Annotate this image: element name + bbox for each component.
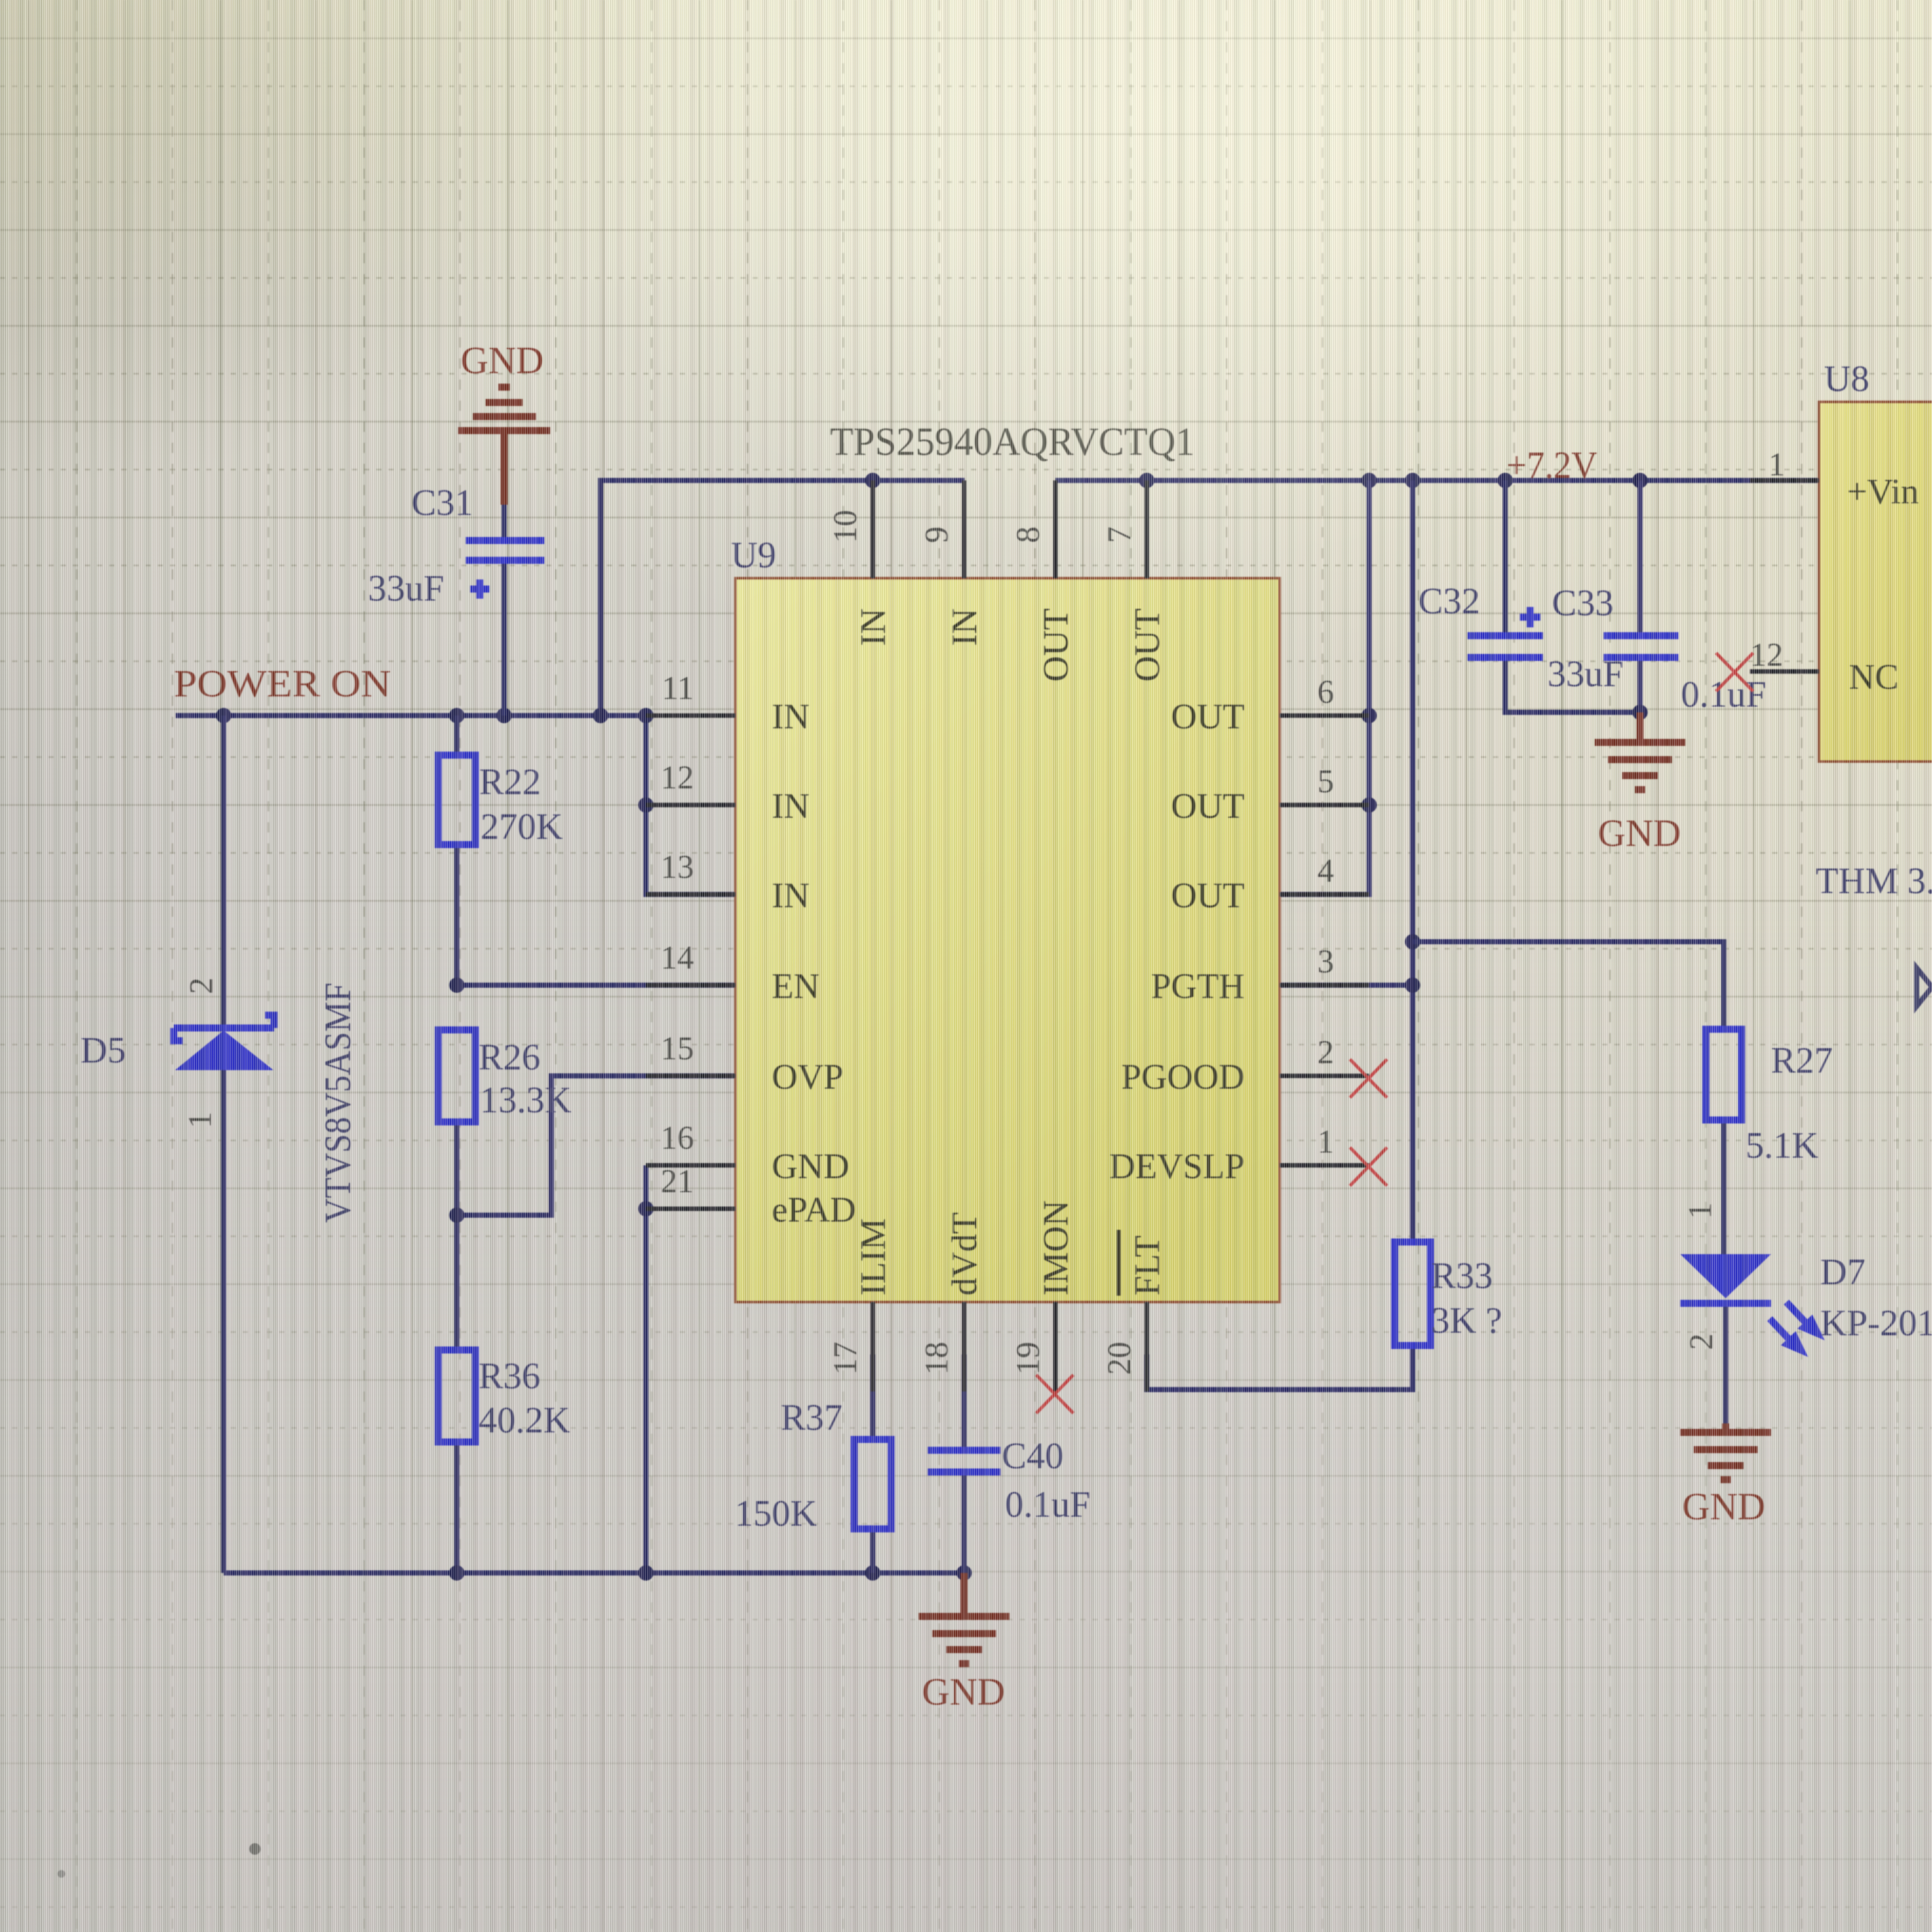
pin name OUT xyxy=(1171,786,1245,826)
IC U9 comment TPS25940AQRVCTQ1 xyxy=(830,420,1195,464)
value 3K ? xyxy=(1431,1299,1502,1341)
svg-text:7: 7 xyxy=(1101,526,1138,543)
value 150K xyxy=(735,1492,817,1534)
junction riser x R27 branch xyxy=(1405,934,1420,949)
svg-text:2: 2 xyxy=(1683,1333,1720,1350)
label R37 xyxy=(781,1397,843,1438)
pin number 9 xyxy=(919,526,955,543)
svg-text:15: 15 xyxy=(661,1031,694,1067)
svg-text:2: 2 xyxy=(183,977,220,994)
label C40 xyxy=(1002,1435,1064,1476)
zener diode D5 xyxy=(174,1015,274,1070)
wire OUT-pins tie line xyxy=(1280,480,1369,894)
pin name PGOOD xyxy=(1121,1057,1245,1097)
resistor R33 xyxy=(1395,1242,1430,1345)
svg-text:20: 20 xyxy=(1101,1342,1138,1375)
D5 pin number 1 xyxy=(182,1112,218,1128)
svg-text:PGTH: PGTH xyxy=(1151,967,1245,1006)
label D5 xyxy=(80,1029,126,1071)
wire D5 bottom to bus xyxy=(221,1070,226,1573)
junction bus x C40/GND xyxy=(956,1565,972,1581)
svg-text:150K: 150K xyxy=(735,1492,817,1534)
capacitor C33 plates xyxy=(1604,636,1678,657)
pin number 13 xyxy=(661,849,694,885)
junction +7.2V x PGTH riser xyxy=(1405,473,1420,488)
value 33uF (C31) xyxy=(368,567,444,609)
svg-text:1: 1 xyxy=(1682,1202,1719,1219)
IC U8 designator xyxy=(1824,358,1869,399)
wire R27 to D7 xyxy=(1721,1120,1726,1254)
junction +7.2V x C33 xyxy=(1632,473,1648,488)
dust speck 2 xyxy=(57,1870,65,1878)
value 13.3K xyxy=(480,1079,572,1121)
C31 polarity + xyxy=(470,579,489,599)
resistor R27 xyxy=(1706,1029,1742,1120)
wire POWER_ON horizontal net xyxy=(176,713,646,718)
D7 light arrows xyxy=(1770,1302,1822,1354)
junction bus x R37 xyxy=(865,1565,880,1581)
pin name PGTH xyxy=(1151,967,1245,1006)
svg-text:U9: U9 xyxy=(731,534,776,576)
wire from POWER_ON up-left rail to IC top rail xyxy=(601,480,965,716)
GND label (D7) xyxy=(1682,1485,1765,1528)
U8 pin name +Vin xyxy=(1847,472,1919,512)
pin number 3 xyxy=(1317,944,1334,980)
pin 12 (IN) stub xyxy=(646,803,735,808)
svg-text:3K ?: 3K ? xyxy=(1431,1299,1502,1341)
wire EN pin xyxy=(457,983,735,988)
pin number 10 xyxy=(827,510,864,543)
svg-text:R36: R36 xyxy=(479,1355,540,1397)
svg-text:VTVS8V5ASMF: VTVS8V5ASMF xyxy=(317,983,358,1223)
pin 20 (FLT) bottom stub xyxy=(1145,1302,1149,1391)
wire R37 to bus xyxy=(870,1529,875,1573)
pin number 12 xyxy=(661,760,694,796)
pin number 15 xyxy=(661,1031,694,1067)
D7 pin number 2 xyxy=(1683,1333,1720,1350)
junction ePAD tie xyxy=(638,1201,654,1216)
U8 pin number 12 xyxy=(1750,637,1783,673)
label R36 xyxy=(479,1355,540,1397)
pin number 11 xyxy=(662,670,694,707)
svg-text:IN: IN xyxy=(945,608,985,646)
IC U9 designator xyxy=(731,534,776,576)
wire C31 riser xyxy=(502,560,507,716)
op-amp/IC U9 body TPS25940 xyxy=(735,578,1280,1302)
svg-text:OUT: OUT xyxy=(1171,876,1245,916)
FLT overbar xyxy=(1117,1230,1121,1296)
svg-text:OUT: OUT xyxy=(1171,697,1245,737)
pin 18 (dVdT) bottom stub xyxy=(962,1302,967,1391)
pin name IN xyxy=(854,608,893,646)
label R33 xyxy=(1431,1255,1493,1296)
svg-text:10: 10 xyxy=(827,510,864,543)
svg-text:C40: C40 xyxy=(1002,1435,1064,1476)
U8 pin name NC xyxy=(1849,657,1899,697)
capacitor C32 plates xyxy=(1468,636,1543,657)
value 33uF (C33) xyxy=(1547,653,1623,694)
wire +7.2V rail xyxy=(1055,478,1819,483)
net label POWER ON xyxy=(174,663,391,705)
junction riser x PGTH xyxy=(1405,977,1420,993)
pin 17 (ILIM) bottom stub xyxy=(871,1302,875,1391)
pin number 5 xyxy=(1317,763,1334,800)
junction tie line x pin12 xyxy=(638,797,654,813)
pin name GND xyxy=(772,1147,849,1186)
resistor R37 xyxy=(854,1439,891,1529)
svg-text:OUT: OUT xyxy=(1171,786,1245,826)
GND label (C31) xyxy=(461,339,544,381)
U8 pin 1 stub xyxy=(1750,479,1819,483)
pin name IN xyxy=(772,786,809,826)
pin number 4 xyxy=(1317,853,1334,889)
net label +7.2V xyxy=(1506,444,1597,486)
svg-text:5: 5 xyxy=(1317,763,1334,800)
pin name IN xyxy=(772,697,809,737)
junction +7.2V x pin7 xyxy=(1139,473,1154,488)
text THM 3. xyxy=(1816,860,1932,901)
pin name IN xyxy=(945,608,985,646)
wire OVP pin dogleg xyxy=(457,1076,735,1215)
GND label (bottom) xyxy=(922,1671,1005,1713)
svg-text:1: 1 xyxy=(1768,447,1785,483)
junction bus x ePAD tie xyxy=(638,1565,654,1581)
junction OUT tie x pin6 xyxy=(1361,708,1377,723)
svg-text:OUT: OUT xyxy=(1036,608,1076,682)
pin 19 (IMON) bottom stub xyxy=(1054,1302,1058,1391)
pin 8 (OUT) top stub xyxy=(1054,480,1058,578)
svg-text:IMON: IMON xyxy=(1036,1200,1076,1296)
wire R36 bottom to bus xyxy=(454,1442,459,1573)
wire bottom bus xyxy=(224,1570,964,1575)
capacitor C31 plates xyxy=(466,540,544,560)
junction +7.2V x C32 xyxy=(1498,473,1513,488)
wire GND to C31 xyxy=(501,433,508,540)
svg-text:6: 6 xyxy=(1317,674,1334,710)
wire C40 to bus xyxy=(962,1472,967,1573)
dust speck 1 xyxy=(249,1843,261,1855)
pin 14 (EN) stub xyxy=(646,983,735,988)
svg-text:R22: R22 xyxy=(479,761,541,802)
pin name IMON xyxy=(1036,1200,1076,1296)
pin number 7 xyxy=(1101,526,1138,543)
pin name ePAD xyxy=(772,1190,856,1230)
resistor R22 xyxy=(438,755,475,845)
pin 21 (ePAD) stub xyxy=(646,1207,735,1211)
svg-text:8: 8 xyxy=(1010,526,1046,543)
junction POWER_ON x top rail riser xyxy=(593,708,608,723)
svg-text:R33: R33 xyxy=(1431,1255,1493,1296)
wire C33 bottom xyxy=(1637,657,1643,712)
svg-text:4: 4 xyxy=(1317,853,1334,889)
svg-text:1: 1 xyxy=(182,1112,218,1128)
pin 13 (IN) stub xyxy=(646,893,735,897)
svg-text:+Vin: +Vin xyxy=(1847,472,1919,512)
svg-text:40.2K: 40.2K xyxy=(479,1399,571,1441)
junction top rail x pin10 xyxy=(865,473,880,488)
svg-text:EN: EN xyxy=(772,967,820,1006)
junction bus x R36 xyxy=(449,1565,464,1581)
svg-text:+7.2V: +7.2V xyxy=(1506,444,1597,486)
pin 16 (GND) stub xyxy=(646,1163,735,1168)
pin number 1 xyxy=(1317,1124,1334,1160)
wire PGTH riser from rail to R33 xyxy=(1410,480,1415,1242)
D5 part number VTVS8V5ASMF (vertical) xyxy=(317,983,358,1223)
svg-text:GND: GND xyxy=(772,1147,849,1186)
pin name OUT xyxy=(1171,876,1245,916)
svg-text:THM 3.3: THM 3.3 xyxy=(1816,860,1932,901)
pin name EN xyxy=(772,967,820,1006)
GND label (C32/C33) xyxy=(1598,812,1681,854)
label C32 xyxy=(1418,580,1480,622)
pin name ILIM xyxy=(854,1218,893,1296)
pin name dVdT xyxy=(945,1212,985,1296)
junction POWER_ON x pin11 xyxy=(638,708,654,723)
svg-text:270K: 270K xyxy=(480,806,563,847)
svg-text:KP-2012: KP-2012 xyxy=(1820,1302,1932,1344)
red X on IMON pin 19 xyxy=(1036,1375,1073,1413)
pin name OUT xyxy=(1171,697,1245,737)
power ground above C31 (inverted) xyxy=(458,387,550,431)
svg-text:U8: U8 xyxy=(1824,358,1869,399)
pin name FLT xyxy=(1128,1236,1167,1296)
junction OVP x resistor chain xyxy=(449,1207,464,1223)
svg-text:GND: GND xyxy=(461,339,544,381)
junction EN x R22/R26 xyxy=(449,977,464,993)
junction POWER_ON x C31 xyxy=(496,708,512,723)
svg-text:R37: R37 xyxy=(781,1397,843,1438)
pin number 8 xyxy=(1010,526,1046,543)
red X on PGOOD pin 2 xyxy=(1350,1059,1387,1098)
value 0.1uF (C40) xyxy=(1005,1483,1091,1525)
svg-text:IN: IN xyxy=(772,786,809,826)
svg-text:13.3K: 13.3K xyxy=(480,1079,572,1121)
wire ILIM to R37 xyxy=(870,1354,875,1439)
D7 pin number 1 xyxy=(1682,1202,1719,1219)
value 270K xyxy=(480,806,563,847)
pin 15 (OVP) stub xyxy=(646,1074,735,1078)
D5 pin number 2 xyxy=(183,977,220,994)
svg-text:C33: C33 xyxy=(1552,582,1614,624)
pin 5 (OUT) stub xyxy=(1280,803,1369,808)
svg-text:1: 1 xyxy=(1317,1124,1334,1160)
value 5.1K xyxy=(1745,1124,1819,1166)
svg-text:GND: GND xyxy=(1598,812,1681,854)
svg-text:11: 11 xyxy=(662,670,694,707)
svg-text:IN: IN xyxy=(854,608,893,646)
wire FLT to R33 bottom xyxy=(1147,1345,1413,1390)
pin 9 (IN) top stub xyxy=(962,480,967,578)
svg-text:D7: D7 xyxy=(1820,1251,1866,1292)
power ground (C32/C33) xyxy=(1595,712,1685,790)
pin 10 (IN) top stub xyxy=(871,480,875,578)
svg-text:17: 17 xyxy=(827,1342,864,1375)
pin name OVP xyxy=(772,1057,843,1097)
pin number 16 xyxy=(661,1120,694,1156)
svg-text:16: 16 xyxy=(661,1120,694,1156)
svg-text:0.1uF: 0.1uF xyxy=(1681,673,1767,715)
pin name DEVSLP xyxy=(1109,1147,1245,1186)
wire R22 bottom to EN junction xyxy=(454,845,459,985)
svg-text:IN: IN xyxy=(772,876,809,916)
net arrow fragment right edge xyxy=(1917,968,1932,1006)
pin name IN xyxy=(772,876,809,916)
wire C32 bottom xyxy=(1505,657,1640,712)
pin number 19 xyxy=(1010,1342,1046,1375)
wire R26 bottom to R36 top xyxy=(454,1122,459,1350)
wire R22 top xyxy=(454,716,459,755)
pin 1 (DEVSLP) stub xyxy=(1280,1163,1369,1168)
pin number 20 xyxy=(1101,1342,1138,1375)
value 0.1uF (C32) xyxy=(1681,673,1767,715)
value 40.2K xyxy=(479,1399,571,1441)
label R26 xyxy=(479,1036,540,1078)
svg-text:R26: R26 xyxy=(479,1036,540,1078)
label R22 xyxy=(479,761,541,802)
svg-text:12: 12 xyxy=(1750,637,1783,673)
svg-text:13: 13 xyxy=(661,849,694,885)
pin name OUT xyxy=(1036,608,1076,682)
wire dVdT to C40 xyxy=(962,1354,967,1450)
wire C32 top xyxy=(1503,480,1508,636)
LED D7 xyxy=(1680,1254,1771,1303)
svg-text:9: 9 xyxy=(919,526,955,543)
pin 4 (OUT) stub xyxy=(1280,893,1369,897)
pin number 2 xyxy=(1317,1034,1334,1071)
pin 3 (PGTH) stub xyxy=(1280,983,1369,988)
svg-text:19: 19 xyxy=(1010,1342,1046,1375)
pin number 6 xyxy=(1317,674,1334,710)
wire D7 to GND xyxy=(1723,1305,1728,1432)
IC U8 body xyxy=(1819,402,1932,762)
label C31 xyxy=(411,482,473,523)
power ground (D7) xyxy=(1680,1432,1771,1480)
svg-text:C32: C32 xyxy=(1418,580,1480,622)
svg-text:33uF: 33uF xyxy=(368,567,444,609)
label D7 xyxy=(1820,1251,1866,1292)
svg-text:12: 12 xyxy=(661,760,694,796)
C33 polarity + xyxy=(1520,607,1540,627)
svg-text:PGOOD: PGOOD xyxy=(1121,1057,1245,1097)
svg-text:IN: IN xyxy=(772,697,809,737)
svg-text:TPS25940AQRVCTQ1: TPS25940AQRVCTQ1 xyxy=(830,420,1195,464)
wire GND/ePAD tie down to bus xyxy=(643,1165,648,1573)
svg-text:OVP: OVP xyxy=(772,1057,843,1097)
wire branch to R27 xyxy=(1413,942,1724,1029)
power ground (bottom C40) xyxy=(919,1573,1009,1664)
junction OUT tie x pin5 xyxy=(1361,797,1377,813)
svg-text:OUT: OUT xyxy=(1128,608,1167,682)
pin 6 (OUT) stub xyxy=(1280,714,1369,718)
svg-text:C31: C31 xyxy=(411,482,473,523)
red X on U8 pin 12 xyxy=(1716,653,1753,691)
value KP-201 xyxy=(1820,1302,1932,1344)
resistor R26 xyxy=(438,1030,475,1122)
svg-text:33uF: 33uF xyxy=(1547,653,1623,694)
svg-text:5.1K: 5.1K xyxy=(1745,1124,1819,1166)
pin 11 (IN) stub xyxy=(646,714,735,718)
label C33 xyxy=(1552,582,1614,624)
svg-text:3: 3 xyxy=(1317,944,1334,980)
wire D5 top xyxy=(221,716,226,1028)
svg-text:GND: GND xyxy=(922,1671,1005,1713)
pin name OUT xyxy=(1128,608,1167,682)
pin number 14 xyxy=(661,940,694,976)
pin number 21 xyxy=(661,1163,694,1200)
resistor R36 xyxy=(438,1350,475,1442)
svg-text:D5: D5 xyxy=(80,1029,126,1071)
U8 pin 12 stub xyxy=(1750,670,1819,674)
svg-text:dVdT: dVdT xyxy=(945,1212,985,1296)
capacitor C40 plates xyxy=(928,1450,1000,1472)
wire IN-pins tie line xyxy=(646,716,735,894)
svg-text:NC: NC xyxy=(1849,657,1899,697)
svg-text:18: 18 xyxy=(919,1342,955,1375)
svg-text:ILIM: ILIM xyxy=(854,1218,893,1296)
pin number 17 xyxy=(827,1342,864,1375)
junction C32/C33 gnd node xyxy=(1632,705,1648,720)
svg-text:FLT: FLT xyxy=(1128,1236,1167,1296)
svg-text:2: 2 xyxy=(1317,1034,1334,1071)
pin number 18 xyxy=(919,1342,955,1375)
junction +7.2V x OUT tie riser xyxy=(1361,473,1377,488)
svg-text:0.1uF: 0.1uF xyxy=(1005,1483,1091,1525)
svg-text:R27: R27 xyxy=(1771,1039,1833,1081)
U8 pin number 1 xyxy=(1768,447,1785,483)
svg-text:ePAD: ePAD xyxy=(772,1190,856,1230)
label R27 xyxy=(1771,1039,1833,1081)
wire C33 top xyxy=(1637,480,1643,636)
svg-text:DEVSLP: DEVSLP xyxy=(1109,1147,1245,1186)
junction POWER_ON x D5 xyxy=(216,708,231,723)
svg-text:14: 14 xyxy=(661,940,694,976)
pin 7 (OUT) top stub xyxy=(1145,480,1149,578)
red X on DEVSLP pin 1 xyxy=(1350,1147,1387,1186)
junction POWER_ON x R22 xyxy=(449,708,464,723)
pin 2 (PGOOD) stub xyxy=(1280,1074,1369,1078)
svg-text:POWER ON: POWER ON xyxy=(174,663,391,705)
svg-text:21: 21 xyxy=(661,1163,694,1200)
wire PGTH pin to riser xyxy=(1280,983,1413,988)
svg-text:GND: GND xyxy=(1682,1485,1765,1528)
